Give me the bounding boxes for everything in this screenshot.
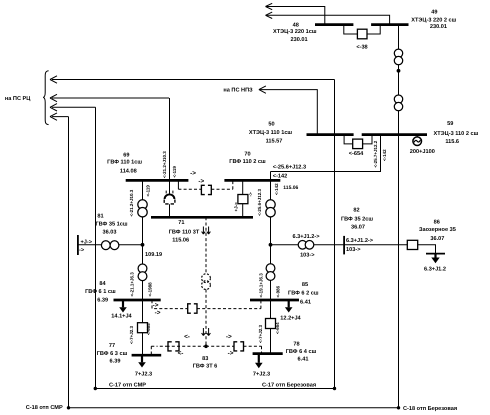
svg-text:6.41: 6.41 bbox=[300, 300, 311, 306]
svg-text:<-38: <-38 bbox=[356, 45, 367, 51]
svg-text:ГВФ 35 2сш: ГВФ 35 2сш bbox=[341, 217, 373, 223]
label node 77 bbox=[97, 343, 128, 365]
bus 82 GVF 35 2ssh bar bbox=[343, 236, 345, 255]
svg-text:14.1+J4: 14.1+J4 bbox=[111, 314, 132, 320]
svg-text:114.08: 114.08 bbox=[120, 169, 137, 175]
svg-text:6.3+J1.2->: 6.3+J1.2-> bbox=[346, 238, 374, 244]
label node 86 bbox=[419, 220, 456, 242]
svg-text:->: -> bbox=[248, 192, 253, 196]
svg-text:70: 70 bbox=[244, 152, 250, 158]
transformer T1 220/110 upper winding bbox=[394, 49, 402, 57]
svg-text:ГВФ 6 3 сш: ГВФ 6 3 сш bbox=[97, 351, 128, 357]
bus 50 XTEC-3 110 1ssh bbox=[307, 133, 354, 136]
svg-text:82: 82 bbox=[353, 208, 359, 214]
svg-text:<-142: <-142 bbox=[274, 183, 279, 195]
label node 85 bbox=[288, 282, 319, 306]
wire vertical feeder4 to C-18 tap bbox=[68, 117, 70, 408]
svg-text:ГВФ 6 2 сш: ГВФ 6 2 сш bbox=[288, 290, 319, 296]
wire vertical feeder2 to bus 69 bbox=[169, 98, 171, 180]
wire line to PS NPZ from bus 50 bbox=[259, 86, 317, 135]
C-17 tap line bbox=[94, 387, 337, 390]
label node 69 bbox=[107, 153, 142, 175]
svg-text:<-142: <-142 bbox=[273, 173, 287, 179]
transformer bus70 110/35 upper winding bbox=[266, 200, 275, 209]
breaker to load 86 bbox=[407, 240, 417, 249]
wire vertical main right column bus59 to C-18 tap bbox=[398, 135, 400, 408]
wire bus 59 down and across to bus 70 bbox=[271, 135, 381, 172]
svg-text:ГВФ 110 3Т: ГВФ 110 3Т bbox=[169, 229, 200, 235]
wire bus49 to transformer chain bbox=[398, 25, 400, 135]
label node 78 bbox=[286, 342, 317, 363]
transformer 35kV right winding B bbox=[305, 241, 314, 250]
svg-text:ГВФ 110 1сш: ГВФ 110 1сш bbox=[107, 159, 142, 165]
label node 83 bbox=[193, 356, 218, 370]
transformer T2 110 upper winding bbox=[394, 95, 402, 103]
bus 84 GVF 6 1ssh bbox=[114, 299, 161, 302]
svg-text:<-7+J2.3: <-7+J2.3 bbox=[258, 324, 263, 343]
transformer 35/6 right upper winding bbox=[266, 264, 275, 273]
svg-text:7+J2.3: 7+J2.3 bbox=[253, 371, 270, 377]
svg-text:->: -> bbox=[79, 247, 85, 253]
bus 81 GVF 35 1ssh bar bbox=[77, 235, 79, 255]
bus 59 XTEC-3 110 2ssh bbox=[362, 133, 427, 136]
svg-text:200+J100: 200+J100 bbox=[410, 149, 435, 155]
breaker 664 bus85 to bus78 bbox=[266, 319, 276, 329]
breaker bus69 to bus71 with dashed box and dome bbox=[164, 181, 175, 217]
svg-text:6.39: 6.39 bbox=[110, 359, 121, 365]
svg-text:<-21.2+J10.3: <-21.2+J10.3 bbox=[162, 151, 167, 178]
dashed wire left of box bbox=[157, 345, 168, 347]
svg-text:<-1988: <-1988 bbox=[147, 282, 152, 297]
wire line PS RC feeder 4 bbox=[50, 113, 69, 120]
svg-text:<-119: <-119 bbox=[146, 185, 151, 197]
svg-text:71: 71 bbox=[178, 220, 184, 226]
transformer 35/6 left lower winding bbox=[138, 272, 147, 281]
svg-text:<-664: <-664 bbox=[275, 322, 280, 334]
svg-text:115.57: 115.57 bbox=[266, 139, 283, 145]
dashed bus 83 line to bus 78 bbox=[206, 346, 262, 353]
transformer 35kV left winding B bbox=[110, 241, 119, 250]
svg-text:Заозерное 35: Заозерное 35 bbox=[419, 227, 456, 233]
svg-text:81: 81 bbox=[97, 214, 103, 220]
bus 69 GVF 110 1ssh bbox=[126, 179, 189, 182]
wire vertical feeder3 to C-17 tap bbox=[95, 107, 97, 388]
label node 81 bbox=[95, 214, 127, 236]
dashed bus 83 line to bus 77 bbox=[151, 346, 206, 354]
wire middle chain bus70 down to junction bbox=[270, 172, 272, 354]
wire line PS RC feeder 3 bbox=[50, 104, 96, 111]
transformer T2 110 lower winding bbox=[394, 102, 402, 110]
breaker 654 between bus 50 and 59 bbox=[344, 135, 372, 149]
svg-text:<-21.2+J10.3: <-21.2+J10.3 bbox=[129, 189, 134, 216]
transformer bus69 110/35 lower winding bbox=[138, 208, 147, 217]
label node 59 bbox=[434, 121, 479, 145]
svg-text:230.01: 230.01 bbox=[291, 37, 308, 43]
svg-text:6.41: 6.41 bbox=[298, 357, 309, 363]
svg-text:+J->: +J-> bbox=[233, 202, 238, 212]
svg-text:->: -> bbox=[226, 333, 232, 340]
svg-text:<-: <- bbox=[184, 333, 190, 340]
wire left chain bus69 down to bus77 bbox=[142, 181, 144, 355]
svg-text:36.07: 36.07 bbox=[430, 236, 444, 242]
label node 48 bbox=[273, 22, 317, 43]
node junction 35kV left bbox=[141, 243, 145, 247]
svg-text:->: -> bbox=[155, 309, 161, 316]
wire line to remote system 2 (top) bbox=[266, 12, 390, 25]
wire line to remote system 1 (top) bbox=[266, 3, 325, 24]
label node 71 bbox=[169, 220, 200, 244]
svg-text:С-18 отп Березовая: С-18 отп Березовая bbox=[403, 406, 457, 412]
svg-text:ХТЭЦ-3 220 1сш: ХТЭЦ-3 220 1сш bbox=[273, 29, 317, 35]
svg-text:С-18 отп СМР: С-18 отп СМР bbox=[26, 405, 63, 411]
svg-text:ХТЭЦ-3 110 1сш: ХТЭЦ-3 110 1сш bbox=[249, 130, 293, 136]
breaker 665 bus84 to bus77 bbox=[138, 323, 148, 333]
svg-text:7+J2.3: 7+J2.3 bbox=[135, 371, 152, 377]
breaker bus70 to bus71 bbox=[238, 181, 248, 217]
svg-text:48: 48 bbox=[293, 22, 299, 28]
svg-text:230.01: 230.01 bbox=[430, 24, 447, 30]
svg-text:59: 59 bbox=[447, 121, 453, 127]
label node 82 bbox=[341, 208, 373, 231]
svg-text:ХТЭЦ-3 110 2 сш: ХТЭЦ-3 110 2 сш bbox=[434, 131, 479, 137]
svg-text:115.6: 115.6 bbox=[445, 139, 459, 145]
svg-text:<-986: <-986 bbox=[275, 285, 280, 297]
node junction on transformer chain bbox=[397, 69, 401, 73]
svg-text:->: -> bbox=[198, 178, 204, 185]
svg-text:<-25.6+J12.3: <-25.6+J12.3 bbox=[273, 164, 306, 170]
C-18 tap line bbox=[67, 406, 400, 409]
svg-text:<-665: <-665 bbox=[146, 323, 151, 335]
label node 49 bbox=[411, 10, 456, 31]
svg-text:ГВФ 3Т 6: ГВФ 3Т 6 bbox=[193, 364, 218, 370]
svg-text:78: 78 bbox=[293, 342, 299, 348]
svg-text:+J->: +J-> bbox=[81, 240, 93, 246]
svg-text:85: 85 bbox=[302, 282, 308, 288]
svg-text:<-25.7+J12.2: <-25.7+J12.2 bbox=[373, 140, 378, 167]
flow arrows below bus 71 bbox=[202, 227, 211, 235]
dashed tie bus69 to bus70 bbox=[178, 181, 232, 195]
svg-text:36.07: 36.07 bbox=[351, 225, 365, 231]
svg-text:103->: 103-> bbox=[300, 253, 315, 259]
bus 49 XTEC-3 220 2ssh bbox=[371, 23, 408, 26]
transformer 35/6 right lower winding bbox=[266, 272, 275, 281]
load 86 Zaozernoe bar bbox=[426, 253, 445, 255]
dashed branch bus71 to 6kV network bbox=[205, 217, 207, 346]
transformer bus70 110/35 lower winding bbox=[266, 208, 275, 217]
svg-text:86: 86 bbox=[434, 220, 440, 226]
svg-text:на ПС НПЗ: на ПС НПЗ bbox=[223, 88, 253, 94]
svg-text:<-654: <-654 bbox=[349, 151, 364, 157]
bus 77 GVF 6 3ssh bbox=[132, 354, 162, 357]
svg-text:<-119: <-119 bbox=[172, 166, 177, 178]
svg-text:6.3+J1.2->: 6.3+J1.2-> bbox=[292, 234, 320, 240]
wire bus81 link to junction bbox=[78, 244, 143, 246]
transformer 35kV right winding A bbox=[298, 241, 307, 250]
label node 70 bbox=[229, 152, 266, 165]
flow arrows above node 83 bbox=[202, 328, 211, 336]
bus 71 GVF 110 3T bbox=[151, 216, 253, 219]
transformer bus69 110/35 upper winding bbox=[138, 200, 147, 209]
bus 85 GVF 6 2ssh bbox=[250, 299, 299, 302]
svg-text:<-19.1+J6.3: <-19.1+J6.3 bbox=[259, 273, 264, 298]
load arrow bus 77 bbox=[138, 355, 146, 367]
wire line PS RC feeder 1 bbox=[50, 76, 335, 83]
svg-text:69: 69 bbox=[123, 153, 129, 159]
node junction 35kV right bbox=[269, 243, 273, 247]
svg-text:ГВФ 6 4 сш: ГВФ 6 4 сш bbox=[286, 349, 317, 355]
wire 35kV link junction to load 86 bbox=[271, 245, 436, 254]
wire vertical feeder1 from bus 50 down to C-17 tap bbox=[334, 80, 336, 389]
svg-text:115.06: 115.06 bbox=[172, 238, 189, 244]
label node 84 bbox=[85, 281, 116, 303]
node 83 junction dot bbox=[204, 345, 208, 349]
svg-text:<-21.1+J6.3: <-21.1+J6.3 bbox=[130, 272, 135, 297]
svg-text:->: -> bbox=[190, 170, 196, 177]
load arrow bus 84 bbox=[119, 300, 127, 313]
dashed breaker 83 left bbox=[168, 342, 179, 351]
dashed breaker 83 right bbox=[234, 342, 244, 351]
svg-text:ГВФ 35 1сш: ГВФ 35 1сш bbox=[95, 222, 127, 228]
svg-text:6.39: 6.39 bbox=[97, 298, 108, 304]
generator 200+j100 at bus 59 bbox=[413, 135, 422, 146]
transformer 35kV left winding A bbox=[101, 241, 110, 250]
svg-text:ГВФ 110 2 сш: ГВФ 110 2 сш bbox=[229, 159, 266, 165]
svg-text:103->: 103-> bbox=[346, 247, 361, 253]
load arrow bus 85 bbox=[285, 300, 293, 313]
dashed link bus84 to bus85 bbox=[152, 300, 261, 308]
svg-text:36.03: 36.03 bbox=[103, 230, 117, 236]
dashed transformer 110/6 lower winding bbox=[202, 281, 211, 290]
svg-text:->: -> bbox=[153, 302, 159, 309]
svg-text:6.3+J1.2: 6.3+J1.2 bbox=[424, 267, 446, 273]
wire line PS RC feeder 2 bbox=[50, 94, 169, 101]
bus 70 GVF 110 2ssh bbox=[224, 179, 280, 182]
dashed transformer 110/6 upper winding bbox=[202, 274, 211, 283]
svg-text:12.2+J4: 12.2+J4 bbox=[280, 316, 301, 322]
curly brace bbox=[43, 71, 48, 125]
svg-text:<-25.6+J12.3: <-25.6+J12.3 bbox=[257, 189, 262, 216]
svg-text:<-: <- bbox=[178, 350, 184, 357]
bus 48 XTEC-3 220 1ssh bbox=[315, 23, 353, 26]
transformer T1 220/110 lower winding bbox=[394, 56, 402, 64]
svg-text:77: 77 bbox=[109, 343, 115, 349]
svg-text:109.19: 109.19 bbox=[145, 252, 162, 258]
load 86 arrow bbox=[431, 254, 439, 264]
svg-text:на ПС РЦ: на ПС РЦ bbox=[5, 96, 31, 102]
svg-text:<-7+J2.3: <-7+J2.3 bbox=[129, 325, 134, 344]
transformer 35/6 left upper winding bbox=[138, 264, 147, 273]
load arrow bus 78 bbox=[255, 354, 263, 369]
label node 50 bbox=[249, 122, 293, 145]
svg-text:83: 83 bbox=[202, 356, 208, 362]
svg-text:ГВФ 6 1 сш: ГВФ 6 1 сш bbox=[85, 289, 116, 295]
svg-text:->: -> bbox=[228, 350, 234, 357]
svg-text:84: 84 bbox=[99, 281, 106, 287]
bus 78 GVF 6 4ssh bbox=[253, 352, 283, 355]
svg-text:С-17 отп Березовая: С-17 отп Березовая bbox=[262, 382, 316, 388]
dashed breaker 84-85 bbox=[188, 304, 197, 313]
svg-text:ХТЭЦ-3 220 2 сш: ХТЭЦ-3 220 2 сш bbox=[411, 18, 456, 24]
svg-text:<-142: <-142 bbox=[382, 149, 387, 161]
breaker 38 between bus 48 and 49 bbox=[344, 25, 380, 39]
svg-text:С-17 отп СМР: С-17 отп СМР bbox=[109, 382, 146, 388]
svg-text:115.06: 115.06 bbox=[283, 185, 298, 191]
svg-text:49: 49 bbox=[431, 10, 437, 16]
svg-text:50: 50 bbox=[268, 122, 274, 128]
